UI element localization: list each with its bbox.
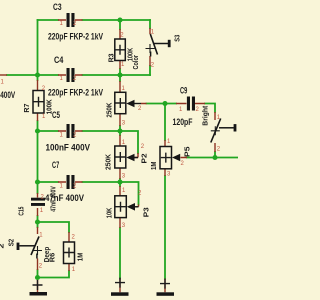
svg-text:C7: C7 [52,160,59,171]
svg-text:250K: 250K [106,154,113,170]
svg-text:S3: S3 [175,35,182,42]
svg-text:P3: P3 [144,207,151,217]
svg-text:C4: C4 [54,55,64,66]
svg-text:R6: R6 [50,253,57,263]
svg-text:120pF: 120pF [173,117,193,128]
svg-text:C3: C3 [53,2,62,13]
svg-text:100K: 100K [47,99,54,114]
svg-text:10K: 10K [106,208,113,219]
svg-text:220pF FKP-2 1kV: 220pF FKP-2 1kV [48,87,103,98]
svg-text:220pF FKP-2 1kV: 220pF FKP-2 1kV [48,31,103,42]
svg-text:1M: 1M [78,253,85,262]
svg-text:100nF 400V: 100nF 400V [46,143,91,154]
svg-text:1M: 1M [151,161,158,170]
svg-text:P5: P5 [185,146,192,157]
svg-text:R7: R7 [24,103,31,112]
svg-text:250K: 250K [107,103,114,118]
svg-text:S2: S2 [9,239,16,247]
svg-text:R3: R3 [109,53,116,62]
svg-text:Bright: Bright [203,105,210,126]
svg-text:C9: C9 [180,86,187,97]
svg-text:P2: P2 [142,153,149,163]
svg-text:400V: 400V [0,90,15,101]
svg-text:47nF 400V: 47nF 400V [51,186,58,212]
svg-text:C15: C15 [19,207,26,216]
svg-text:2: 2 [0,243,6,248]
svg-text:Color: Color [133,55,140,70]
